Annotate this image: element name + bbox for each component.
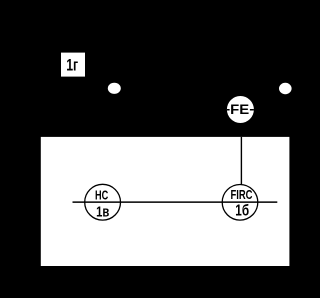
svg-text:HC: HC: [95, 188, 108, 202]
instrument bubble FIRC: [222, 185, 258, 221]
nozzle blob left: [108, 83, 121, 94]
svg-text:1б: 1б: [235, 203, 249, 220]
svg-text:FIRC: FIRC: [231, 188, 253, 202]
svg-text:1в: 1в: [96, 204, 109, 221]
wire: process line through FE: [227, 109, 254, 111]
svg-text:1г: 1г: [66, 56, 78, 74]
instrument bubble HC: [85, 184, 121, 220]
label FIRC: [231, 188, 253, 220]
wire: signal line HC to FIRC: [73, 201, 278, 203]
wire: impulse line FE to FIRC: [240, 137, 242, 185]
equipment panel (white area): [41, 137, 290, 266]
label HC: [95, 188, 109, 220]
nozzle blob right: [279, 83, 292, 94]
flow element FE: [227, 96, 254, 123]
tag box 1г: [61, 53, 85, 77]
svg-text:FE: FE: [230, 101, 249, 117]
